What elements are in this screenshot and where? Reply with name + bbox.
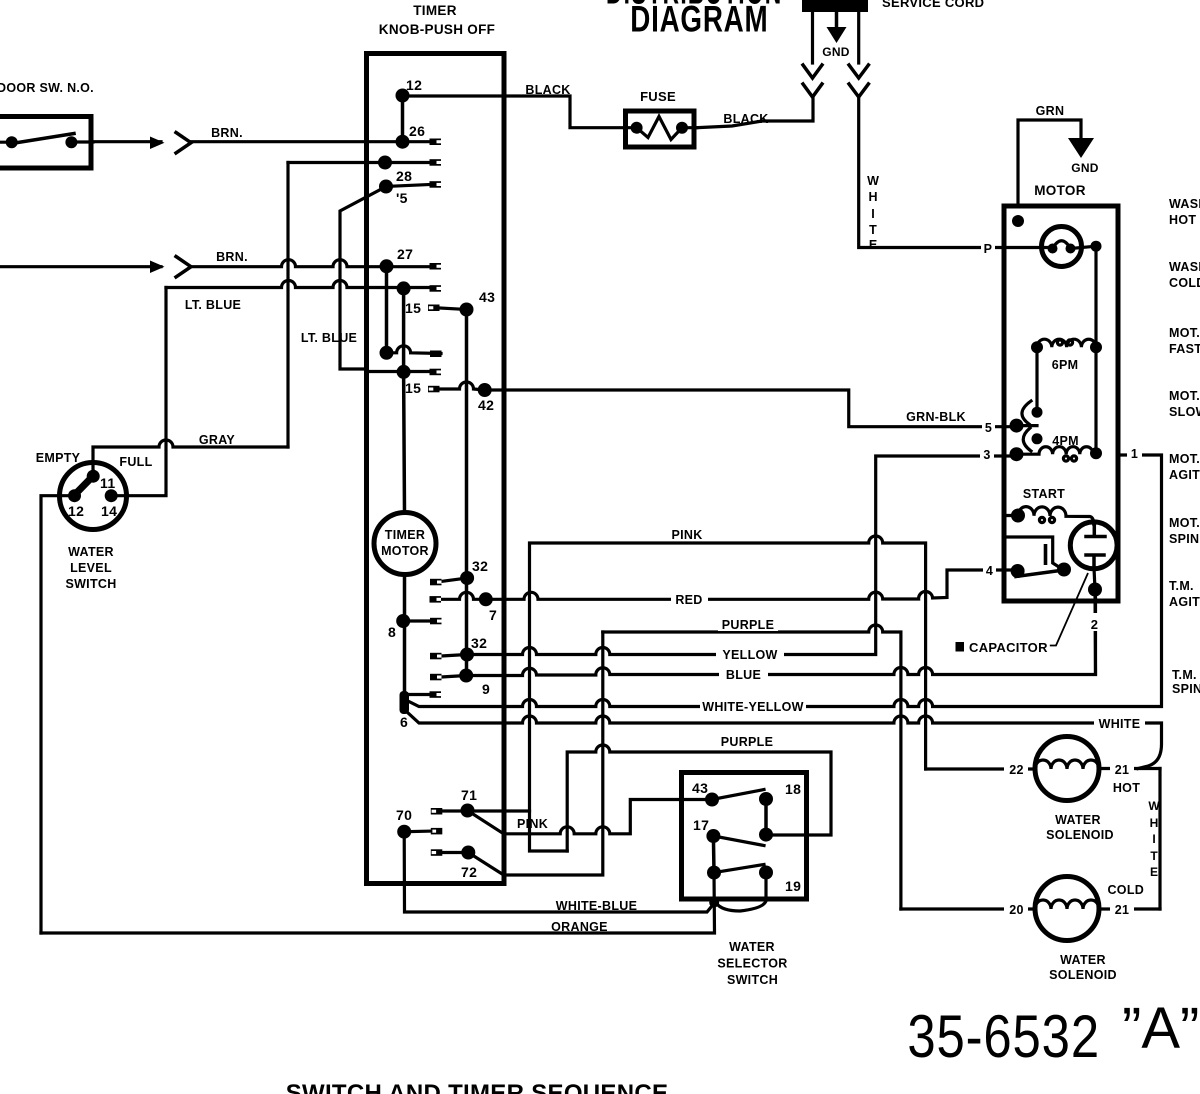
wire door switch to arrow (BRN row 1): [76, 140, 161, 144]
label WATER SOLENOID (cold): [1049, 953, 1117, 982]
svg-text:MOTOR: MOTOR: [1034, 183, 1086, 198]
motor box: [1004, 206, 1118, 601]
svg-text:GRN-BLK: GRN-BLK: [906, 410, 966, 424]
timer contact dot 27: [380, 259, 394, 273]
wire GRN from motor top to ground arrow: [1018, 120, 1081, 206]
svg-text:FUSE: FUSE: [640, 89, 676, 104]
wire capacitor to dot 2 and down to blue row: [1094, 568, 1096, 674]
svg-text:T.M.: T.M.: [1169, 579, 1194, 593]
water level switch contact 11: [87, 470, 100, 483]
timer contact dot 8: [396, 614, 410, 628]
motor start winding row: [1005, 507, 1094, 524]
svg-text:21: 21: [1115, 903, 1130, 917]
terminal lug 15b: [430, 369, 442, 376]
svg-text:T: T: [869, 223, 877, 237]
terminal lug 27: [430, 263, 442, 270]
wire white link between solenoids: [1158, 769, 1161, 910]
wire 42 row with bump over 43 vertical: [440, 382, 485, 390]
svg-text:35-6532: 35-6532: [907, 1003, 1100, 1070]
terminal lug 9: [430, 674, 442, 681]
svg-text:PINK: PINK: [517, 817, 548, 831]
wire GRN-BLK from 42 to motor 5: [485, 390, 1017, 427]
svg-text:BLACK: BLACK: [723, 112, 768, 126]
wire 28 row to terminal: [386, 185, 430, 187]
svg-text:18: 18: [785, 781, 801, 797]
svg-text:COLD: COLD: [1107, 883, 1144, 897]
door switch contact right: [65, 136, 77, 148]
svg-text:2: 2: [1091, 617, 1099, 632]
svg-text:WASH: WASH: [1169, 260, 1200, 274]
water level switch arm 12-11: [71, 472, 98, 499]
svg-text:W: W: [1148, 799, 1160, 813]
selector contact 18: [759, 792, 773, 806]
svg-text:MOT.: MOT.: [1169, 389, 1200, 403]
wire 17b down through junction to ORANGE row: [41, 873, 715, 933]
svg-text:I: I: [1152, 832, 1155, 846]
svg-text:GND: GND: [822, 45, 850, 59]
centrifugal switch blades: [1017, 401, 1038, 451]
svg-text:ORANGE: ORANGE: [551, 920, 608, 934]
timer contact dot 43: [460, 303, 474, 317]
terminal lug 72: [431, 849, 443, 856]
wire WHITE-BLUE from 70 down and right to selector junction: [404, 832, 713, 912]
wire 18 down to 18b: [764, 799, 768, 835]
label 22: [1004, 761, 1028, 777]
service cord right lead wire: [857, 12, 860, 63]
svg-text:SOLENOID: SOLENOID: [1049, 968, 1117, 982]
wire 70 row to terminal: [404, 829, 431, 833]
svg-text:71: 71: [461, 787, 477, 803]
svg-text:HOT: HOT: [1113, 781, 1140, 795]
svg-text:EMPTY: EMPTY: [36, 451, 81, 465]
svg-text:PINK: PINK: [671, 528, 702, 542]
wire 288 vertical down: [402, 288, 406, 372]
svg-text:GRAY: GRAY: [199, 433, 236, 447]
label RED: [671, 591, 708, 607]
motor start arm dot right: [1057, 563, 1071, 577]
svg-text:SLOW: SLOW: [1169, 405, 1200, 419]
wire BRN row 2 to timer pin 27 with crossover bumps: [191, 260, 430, 267]
label MOT SLOW: [1169, 389, 1200, 419]
terminal lug 32b: [430, 653, 442, 660]
svg-text:SPIN: SPIN: [1169, 532, 1199, 546]
label BLUE: [719, 666, 768, 682]
wire PINK lower row with bumps to selector 43: [504, 800, 712, 834]
svg-text:I: I: [871, 207, 874, 221]
svg-text:KNOB-PUSH OFF: KNOB-PUSH OFF: [379, 22, 495, 37]
wire row 353 with bump to stub: [387, 346, 442, 354]
label WHITE (vertical, service): [867, 174, 879, 252]
svg-text:WATER: WATER: [729, 940, 775, 954]
wire 19 down with U-curve to junction: [716, 873, 766, 912]
label 20: [1004, 901, 1028, 917]
svg-text:7: 7: [489, 607, 497, 623]
terminal lug 70: [431, 828, 443, 835]
svg-text:4: 4: [986, 564, 993, 578]
svg-text:GRN: GRN: [1036, 104, 1065, 118]
terminal lug 8: [430, 618, 442, 625]
ground arrow (motor GRN): [1068, 138, 1094, 158]
timer contact dot 7: [479, 592, 493, 606]
svg-text:TIMER: TIMER: [413, 3, 457, 18]
svg-text:15: 15: [405, 300, 421, 316]
wire BRN row 1 to timer pin 26: [191, 140, 430, 143]
wire solenoid 1 right lead 21: [1099, 767, 1160, 770]
svg-text:E: E: [869, 238, 877, 252]
selector arm 17b-19: [714, 865, 764, 873]
wire 43 vertical down to 9: [465, 310, 469, 676]
wire water level 12 lead and big left loop to ORANGE row: [41, 496, 75, 933]
solenoid 1 coil: [1035, 760, 1099, 769]
motor start switch arm: [1016, 570, 1064, 577]
timer motor body: [374, 513, 436, 575]
svg-text:1: 1: [1131, 447, 1138, 461]
plug chevron right pair: [849, 65, 868, 97]
wire switch arm 72 diagonal to row 875: [468, 632, 603, 875]
wire diagonal from 28 dot down-left and to row 15b: [340, 187, 430, 372]
motor contact dot 2: [1088, 583, 1102, 597]
svg-text:SWITCH: SWITCH: [65, 577, 116, 591]
label 4 (motor): [983, 562, 996, 578]
door switch contact left: [6, 136, 18, 148]
terminal lug row 2: [430, 159, 442, 166]
svg-text:WHITE-BLUE: WHITE-BLUE: [556, 899, 637, 913]
svg-text:12: 12: [68, 503, 84, 519]
svg-text:YELLOW: YELLOW: [722, 648, 777, 662]
svg-text:5: 5: [985, 421, 992, 435]
wire thermal right to dot: [1071, 246, 1097, 248]
svg-text:27: 27: [397, 246, 413, 262]
terminal lug 7 (red row): [430, 596, 442, 603]
label P (motor terminal): [981, 240, 995, 256]
wire WHITE vertical from plug to motor P row: [859, 97, 1053, 248]
svg-text:32: 32: [471, 635, 487, 651]
motor contact dot above 5: [1032, 407, 1043, 418]
wire start switch frame row: [1005, 537, 1059, 567]
wire 15a to dot 43: [440, 308, 467, 310]
door switch box: [0, 117, 91, 169]
ground GND stem and arrow (service cord): [827, 12, 847, 43]
svg-text:'5: '5: [396, 190, 408, 206]
wire plug tail to fuse (BLACK): [697, 97, 813, 128]
timer box: [367, 54, 505, 884]
label YELLOW: [716, 645, 784, 662]
start winding contact circles: [1039, 517, 1044, 522]
svg-text:BRN.: BRN.: [216, 250, 248, 264]
svg-text:FULL: FULL: [119, 455, 152, 469]
wire timer main vertical upper (372 to timer motor): [402, 372, 406, 513]
svg-text:PURPLE: PURPLE: [721, 735, 774, 749]
svg-text:WATER: WATER: [1055, 813, 1101, 827]
label WASH HOT: [1169, 197, 1200, 227]
water level switch body: [60, 463, 127, 530]
door switch arm: [12, 134, 74, 144]
svg-text:TIMER: TIMER: [385, 528, 425, 542]
label T.M. AGIT: [1169, 579, 1200, 609]
timer contact dot 71: [461, 804, 475, 818]
capacitor pointer line: [1050, 573, 1088, 646]
timer contact dot 32a: [460, 571, 474, 585]
svg-text:43: 43: [479, 289, 495, 305]
timer contact dot row 353: [380, 346, 394, 360]
motor contact dot right of thermal: [1091, 241, 1102, 252]
svg-text:H: H: [868, 190, 877, 204]
svg-text:SPIN: SPIN: [1172, 682, 1200, 696]
timer contact dot 9: [459, 669, 473, 683]
motor start arm dot left (pin 4): [1011, 564, 1025, 578]
svg-text:AGIT: AGIT: [1169, 468, 1200, 482]
svg-text:8: 8: [388, 624, 396, 640]
svg-text:DIAGRAM: DIAGRAM: [630, 0, 768, 39]
wire LT. BLUE row with crossover bumps: [166, 281, 430, 288]
svg-text:43: 43: [692, 780, 708, 796]
motor winding dots 6PM: [1031, 341, 1043, 353]
water level switch contact 14: [105, 489, 118, 502]
terminal lug 71: [431, 808, 443, 815]
svg-text:H: H: [1150, 816, 1159, 830]
fuse contact dots: [631, 122, 643, 134]
svg-text:”A”: ”A”: [1122, 996, 1199, 1061]
motor contact dot 4PM: [1032, 433, 1043, 444]
terminal lug 6: [430, 691, 442, 698]
wire fuse right lead BLACK: [682, 126, 697, 129]
wire 27 vertical down: [385, 266, 389, 353]
svg-text:MOT.: MOT.: [1169, 326, 1200, 340]
wire PURPLE row: [603, 625, 901, 909]
motor start dot: [1011, 509, 1025, 523]
svg-text:CAPACITOR: CAPACITOR: [969, 640, 1048, 655]
motor contact dot 3: [1010, 447, 1024, 461]
svg-text:22: 22: [1009, 763, 1024, 777]
svg-text:9: 9: [482, 681, 490, 697]
svg-text:WATER: WATER: [68, 545, 114, 559]
start switch tick: [1044, 544, 1048, 565]
svg-text:15: 15: [405, 380, 421, 396]
wire 72 row to terminal: [442, 851, 468, 854]
timer contact dot row 372: [397, 365, 411, 379]
svg-text:SOLENOID: SOLENOID: [1046, 828, 1114, 842]
motor contact dot 1 (winding right): [1090, 447, 1102, 459]
service cord left lead wire: [811, 12, 814, 63]
wire RED row from terminal through dot 7 with bumps: [441, 570, 1018, 599]
capacitor plates: [1086, 524, 1105, 568]
selector contact 17: [706, 829, 720, 843]
svg-text:LT. BLUE: LT. BLUE: [185, 298, 241, 312]
svg-text:WASH: WASH: [1169, 197, 1200, 211]
label 21 (hot): [1110, 761, 1134, 777]
label 2 (motor): [1087, 613, 1103, 632]
svg-text:DOOR SW. N.O.: DOOR SW. N.O.: [0, 81, 94, 95]
service cord plug block: [802, 0, 868, 12]
svg-text:MOT.: MOT.: [1169, 452, 1200, 466]
motor 6PM winding: [1037, 339, 1096, 347]
svg-text:6: 6: [400, 714, 408, 730]
water solenoid 1 body (hot): [1035, 737, 1099, 801]
timer contact dot 28: [379, 180, 393, 194]
svg-text:6PM: 6PM: [1052, 358, 1079, 372]
svg-text:11: 11: [100, 475, 115, 491]
timer contact dot 26: [396, 135, 410, 149]
water selector switch box: [682, 773, 807, 900]
svg-text:SELECTOR: SELECTOR: [717, 957, 787, 971]
motor GRN contact dot: [1012, 215, 1024, 227]
terminal stub row 353: [430, 351, 442, 358]
svg-text:SERVICE CORD: SERVICE CORD: [882, 0, 984, 10]
selector arm 43-18: [712, 790, 764, 800]
motor 4PM winding: [1017, 447, 1097, 455]
label MOT FAST: [1169, 326, 1200, 356]
wire YELLOW row from terminal dot 32b with bumps to motor 3 riser: [441, 456, 1017, 656]
wire 6PM left dot down: [1035, 347, 1038, 412]
label 5 (motor): [982, 419, 995, 435]
svg-text:3: 3: [983, 448, 990, 462]
selector contact 19: [759, 866, 773, 880]
svg-text:W: W: [867, 174, 879, 188]
label WATER SELECTOR SWITCH: [717, 940, 787, 987]
svg-text:P: P: [984, 242, 993, 256]
svg-text:26: 26: [409, 123, 425, 139]
svg-text:BRN.: BRN.: [211, 126, 243, 140]
wire solenoid 2 left lead 20: [901, 907, 1035, 910]
svg-text:GND: GND: [1071, 161, 1099, 175]
4PM winding contact circles: [1063, 456, 1068, 461]
wire solenoid 2 right lead 21: [1099, 907, 1160, 910]
svg-text:MOT.: MOT.: [1169, 516, 1200, 530]
timer contact dot 32b: [460, 648, 474, 662]
label WATER LEVEL SWITCH: [65, 545, 116, 591]
label WHITE (horizontal): [1094, 715, 1145, 731]
chevron connector BRN row 2: [176, 257, 191, 278]
svg-text:32: 32: [472, 558, 488, 574]
svg-text:SWITCH: SWITCH: [727, 973, 778, 987]
terminal lug 15a: [428, 305, 440, 312]
svg-text:17: 17: [693, 817, 709, 833]
terminal lug 26: [430, 139, 442, 146]
wire switch arm 71 diagonal to PINK lower row: [468, 811, 504, 834]
svg-text:T: T: [1150, 849, 1158, 863]
label 3 (motor): [980, 446, 994, 462]
timer pin 6 blob: [400, 691, 410, 714]
arrowhead BRN row 1: [150, 137, 165, 150]
water level switch contact 12: [68, 489, 81, 502]
svg-text:WHITE: WHITE: [1099, 717, 1141, 731]
wire 71 row to pink riser: [442, 811, 567, 851]
svg-text:AGIT: AGIT: [1169, 595, 1200, 609]
svg-text:20: 20: [1009, 903, 1024, 917]
svg-text:COLD: COLD: [1169, 276, 1200, 290]
svg-text:BLACK: BLACK: [525, 83, 570, 97]
svg-text:72: 72: [461, 864, 477, 880]
fuse element zigzag: [637, 117, 682, 140]
selector contact 17b: [707, 866, 721, 880]
plug chevron left pair: [803, 65, 822, 97]
junction blob selector bottom: [709, 898, 719, 908]
wire pin 6 to terminal: [408, 693, 430, 696]
timer contact dot 70: [397, 825, 411, 839]
timer contact dot row 2: [378, 156, 392, 170]
wire BLACK from timer 12 to fuse: [403, 96, 637, 128]
title DISTRIBUTION DIAGRAM: [606, 0, 782, 39]
svg-text:FAST: FAST: [1169, 342, 1200, 356]
wire door switch lead into box: [0, 141, 12, 144]
svg-text:RED: RED: [675, 593, 702, 607]
wire 8 row to terminal: [403, 619, 430, 622]
svg-text:HOT: HOT: [1169, 213, 1196, 227]
thermal protector element arc: [1053, 241, 1071, 249]
wire water level 14 lead up to LT BLUE row: [111, 288, 166, 496]
wire solenoid 1 left lead 22: [926, 767, 1035, 770]
terminal lug row 288: [430, 285, 442, 292]
selector contact 18b: [759, 828, 773, 842]
thermal protector contact dots: [1048, 244, 1058, 254]
selector arm 17-18b: [713, 836, 764, 846]
label PURPLE (upper): [718, 616, 778, 632]
timer contact dot 72: [461, 846, 475, 860]
svg-text:70: 70: [396, 807, 412, 823]
svg-text:MOTOR: MOTOR: [381, 544, 429, 558]
timer contact dot 12: [396, 89, 410, 103]
label WHITE-YELLOW: [700, 698, 806, 714]
label MOT SPIN: [1169, 516, 1200, 546]
svg-text:LT. BLUE: LT. BLUE: [301, 331, 357, 345]
wire timer 12 down to 26: [401, 96, 405, 142]
arrowhead BRN row 2: [150, 261, 165, 274]
wire PINK row from pin 71 riser to solenoid 22 drop: [530, 536, 926, 811]
water solenoid 2 body (cold): [1035, 877, 1099, 941]
timer contact dot 42: [478, 383, 492, 397]
svg-text:14: 14: [101, 503, 117, 519]
label T.M. SPIN: [1172, 668, 1200, 696]
timer contact dot row 288: [397, 281, 411, 295]
svg-text:19: 19: [785, 878, 801, 894]
svg-text:12: 12: [406, 77, 422, 93]
terminal lug 42 row: [428, 386, 440, 393]
svg-text:LEVEL: LEVEL: [70, 561, 112, 575]
fuse box: [626, 111, 695, 147]
motor contact dot 5: [1010, 419, 1024, 433]
svg-text:21: 21: [1115, 763, 1130, 777]
terminal lug 28: [430, 181, 442, 188]
label WASH COLD: [1169, 260, 1200, 290]
svg-text:28: 28: [396, 168, 412, 184]
svg-text:SWITCH AND TIMER SEQUENCE: SWITCH AND TIMER SEQUENCE: [286, 1080, 669, 1094]
wire GRAY horizontal to water level switch with bump: [93, 440, 288, 476]
capacitor body: [1070, 522, 1117, 569]
label MOT AGIT: [1169, 452, 1200, 482]
svg-text:PURPLE: PURPLE: [722, 618, 775, 632]
selector contact 43: [705, 793, 719, 807]
svg-text:E: E: [1150, 865, 1158, 879]
label CAPACITOR with diamond: [956, 640, 1049, 655]
wire motor inner right vertical: [1094, 246, 1097, 453]
thermal protector body: [1042, 227, 1082, 267]
wire WHITE row from pin 6 to solenoid 21 drop: [407, 712, 1162, 769]
wire left feed row 2 (lower BRN): [0, 265, 161, 268]
wire GRAY vertical from timer row 2: [286, 163, 289, 448]
svg-text:START: START: [1023, 487, 1065, 501]
wire WHITE-YELLOW row from pin 6 to motor pin 1 riser: [407, 455, 1162, 707]
svg-text:WATER: WATER: [1060, 953, 1106, 967]
chevron connector BRN row 1: [176, 133, 191, 154]
svg-text:T.M.: T.M.: [1172, 668, 1197, 682]
svg-text:42: 42: [478, 397, 494, 413]
label TIMER MOTOR: [381, 528, 429, 558]
label 1 (motor): [1127, 444, 1142, 461]
label WATER SOLENOID (hot): [1046, 813, 1114, 842]
6PM winding contact circles: [1057, 340, 1062, 345]
wire 32a to terminal: [441, 578, 467, 582]
svg-text:BLUE: BLUE: [726, 668, 761, 682]
